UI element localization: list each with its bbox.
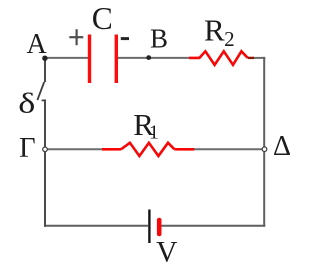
resistor R2 dark right lead [248, 57, 254, 59]
battery V long plate [148, 210, 150, 244]
node Gamma ring [43, 147, 48, 152]
svg-text:δ: δ [18, 88, 35, 120]
wire bottom left segment [44, 225, 148, 227]
svg-text:V: V [156, 237, 177, 269]
svg-text:1: 1 [149, 121, 159, 143]
switch blade delta [37, 82, 44, 100]
svg-text:2: 2 [224, 27, 235, 51]
capacitor C left plate [88, 35, 91, 84]
wire top-left: A to capacitor left plate [44, 57, 88, 59]
wire middle right: R1 to Delta [194, 148, 264, 150]
node B dot [146, 55, 151, 60]
svg-text:A: A [26, 29, 47, 60]
resistor R1 zigzag [121, 143, 175, 156]
battery V short plate (red) [157, 220, 162, 234]
svg-text:R: R [204, 13, 225, 48]
node A dot [42, 56, 47, 61]
minus sign [121, 37, 129, 40]
node Delta ring [262, 147, 267, 152]
resistor R1 right lead [175, 148, 195, 151]
svg-text:Δ: Δ [273, 131, 291, 162]
wire left vertical lower (switch to bottom) [44, 100, 46, 227]
svg-text:B: B [150, 24, 168, 54]
wire middle left: Gamma to R1 [45, 148, 102, 150]
wire: capacitor right plate to R2 lead [118, 57, 189, 59]
svg-text:Γ: Γ [19, 133, 35, 164]
svg-text:C: C [92, 1, 113, 36]
wire bottom right segment [161, 225, 265, 227]
plus sign [69, 36, 83, 38]
wire: after R2 to top-right corner [254, 57, 266, 59]
switch lower contact tick [42, 99, 46, 101]
wire left vertical upper (A to switch) [44, 57, 46, 82]
resistor R1 left lead [102, 148, 121, 151]
resistor R2 zigzag [189, 51, 248, 65]
wire right vertical [263, 57, 265, 227]
capacitor C right plate [115, 35, 118, 84]
